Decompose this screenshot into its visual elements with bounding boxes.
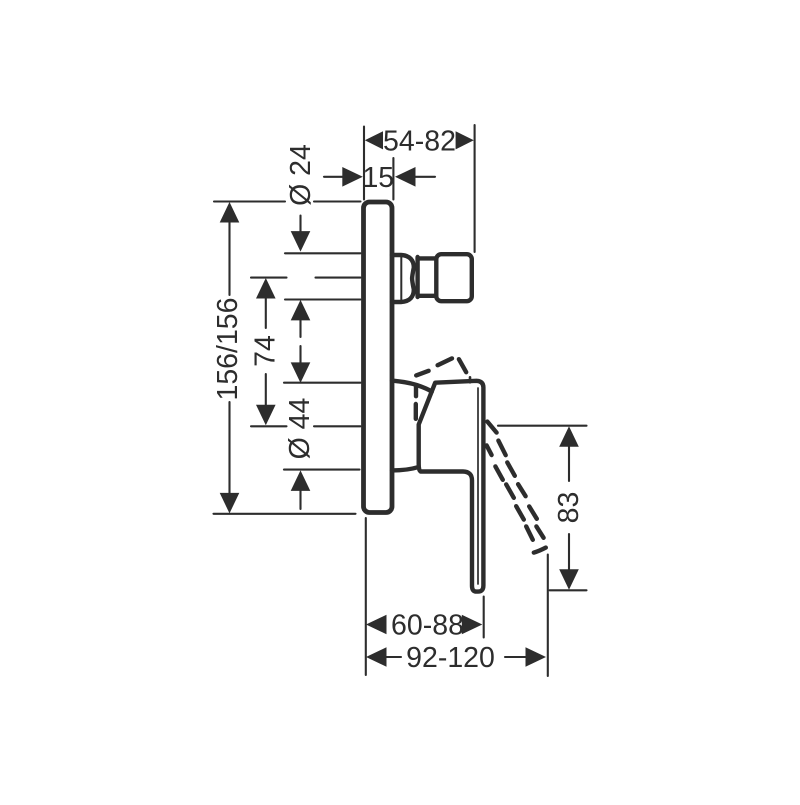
- handle inner edge line: [477, 388, 479, 584]
- dashed lever (pulled position): [487, 422, 546, 553]
- cartridge sleeve top edge: [392, 381, 432, 392]
- cartridge sleeve bottom edge: [392, 467, 418, 470]
- dimension texts: [212, 125, 585, 674]
- O44 arrows: [291, 362, 311, 383]
- svg-text:Ø 24: Ø 24: [285, 144, 317, 206]
- 92-120 arrows: [366, 647, 387, 667]
- plate bottom tick: [214, 513, 356, 515]
- extension ticks left of plate: [214, 202, 361, 514]
- spout connector flange: [392, 255, 414, 302]
- 83 arrows: [559, 426, 579, 447]
- svg-text:83: 83: [553, 492, 585, 524]
- spout top tick: [285, 252, 361, 254]
- spout connector end cap: [436, 254, 472, 301]
- handle top stub mark: [469, 377, 472, 382]
- bottom extension lines: [366, 518, 484, 675]
- 60-88 arrows: [366, 615, 387, 635]
- handle axis tick: [251, 425, 361, 427]
- dimension 156/156 line: [228, 222, 230, 494]
- extension line (plate back face): [392, 158, 394, 200]
- svg-text:156/156: 156/156: [212, 297, 244, 400]
- svg-text:54-82: 54-82: [383, 125, 456, 157]
- dashed lever (up position): [416, 358, 466, 418]
- dimension 92-120 leaders: [386, 656, 529, 658]
- 54-82 arrows: [365, 131, 383, 149]
- dimension O24 leaders: [299, 216, 301, 510]
- dimension 15: [324, 158, 435, 200]
- lever end cap dash: [534, 548, 546, 553]
- svg-text:60-88: 60-88: [391, 610, 464, 642]
- extension line right (spout end): [474, 125, 476, 252]
- sleeve top tick: [284, 382, 361, 384]
- arrowheads: [220, 131, 579, 667]
- svg-text:74: 74: [250, 335, 282, 367]
- plate top tick: [214, 200, 361, 202]
- spout bottom tick: [285, 298, 361, 300]
- right leader: [413, 176, 435, 178]
- 74 arrows: [256, 278, 276, 299]
- spout axis tick: [251, 277, 361, 279]
- svg-text:Ø 44: Ø 44: [284, 397, 316, 459]
- dimension 54-82: [364, 125, 475, 252]
- 15 arrows: [342, 167, 363, 187]
- spout connector small cylinder: [418, 256, 436, 299]
- lever handle (solid, down position): [419, 377, 484, 591]
- O24 arrows: [291, 231, 311, 252]
- left leader: [324, 176, 345, 178]
- 156/156 arrows: [220, 202, 240, 223]
- lever tip extension line: [547, 555, 549, 677]
- svg-text:92-120: 92-120: [406, 642, 495, 674]
- dimension 74 line: [265, 297, 267, 407]
- svg-text:15: 15: [362, 162, 394, 194]
- wall plate: [364, 202, 393, 513]
- sleeve bottom tick: [284, 469, 360, 471]
- dimension 83: [498, 426, 587, 676]
- extension line left (plate face): [363, 127, 365, 200]
